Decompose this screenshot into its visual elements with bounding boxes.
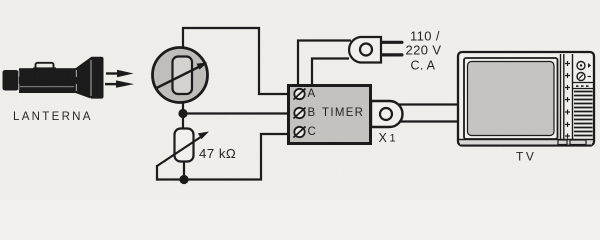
TV screen bezel [464,58,558,139]
connector tab X1 [371,101,403,127]
flashlight tail cap [3,70,19,91]
flashlight body [19,68,77,93]
wire wiper to bottom rail [156,165,158,181]
wire tab to TV upper [399,103,460,105]
TV screen [468,62,555,136]
wire node B to timer [183,112,288,114]
timer box U1 [289,86,371,144]
wire cord upper to plug [298,41,351,86]
speaker grille [574,92,593,136]
TV base strip line [459,139,593,141]
light arrow 2 [105,80,134,87]
AC plug P1 [349,37,403,63]
wire tab to TV lower [399,120,460,122]
wire bottom rail to terminal C [156,134,288,180]
panel tick marks [565,61,570,139]
light arrow 1 [106,70,134,77]
knob 1 [577,62,585,70]
LDR photocell LDR1 [153,48,208,103]
TV cabinet [458,52,594,146]
wire LDR bottom to potentiometer [182,100,184,129]
wire pot bottom lead [183,161,185,180]
terminal A [294,89,306,100]
panel divider horizontal [573,82,593,84]
TV set [458,52,594,146]
plug prong 2 [381,53,404,56]
panel divider lines [560,54,562,140]
terminal B [294,108,306,119]
terminal C [294,127,306,138]
flashlight head cone [76,58,91,98]
wire from LDR top to node over timer [183,28,288,94]
flashlight switch bump [36,63,54,70]
junction node at bottom rail [179,175,188,184]
flashlight shading slits [18,60,92,96]
junction node between LDR and potentiometer [178,109,187,118]
potentiometer wiper arrow [157,132,209,167]
flashlight head rim [90,57,104,99]
potentiometer R1 47k body [175,129,194,162]
knob 2 [577,73,585,81]
wire cord lower to plug [312,59,349,86]
plug prong 1 [381,41,404,44]
flashlight (lanterna) silhouette [3,57,104,99]
base detail boxes [558,140,567,145]
